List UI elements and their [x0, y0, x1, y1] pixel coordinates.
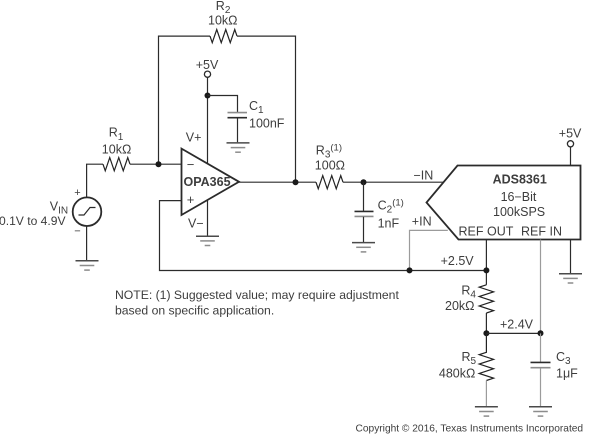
wire VIN bottom to ground: [86, 226, 88, 260]
wire +2.4V horizontal: [486, 332, 540, 334]
label 16-Bit: [501, 190, 537, 204]
label 100kSPS: [493, 205, 545, 219]
svg-text:+: +: [74, 187, 80, 199]
svg-text:0.1V to 4.9V: 0.1V to 4.9V: [0, 214, 66, 228]
label ADS8361: [493, 173, 547, 187]
wire C1 to ground: [237, 118, 239, 142]
svg-text:10kΩ: 10kΩ: [208, 14, 238, 28]
label V−: [188, 216, 204, 230]
node A junction: [156, 161, 162, 167]
wire feedback top from node A to R2: [159, 36, 211, 164]
value label R3(1) 100Ω: [315, 143, 345, 173]
ADC U2 ADS8361 outline: [427, 166, 581, 240]
wire R3 to -IN: [343, 181, 443, 183]
wire non-inverting input to bottom rail: [160, 201, 487, 271]
svg-text:OPA365: OPA365: [184, 175, 231, 189]
ground op-amp: [196, 236, 219, 245]
node +IN junction: [407, 267, 413, 273]
svg-text:1nF: 1nF: [378, 217, 400, 231]
node +2.4V left junction: [483, 330, 489, 336]
svg-text:−IN: −IN: [414, 169, 434, 183]
resistor R3: [316, 176, 343, 189]
wire node to C2: [363, 182, 365, 211]
wire +5V to V+: [207, 77, 209, 163]
label V+: [186, 130, 202, 144]
wire +2.4V to C3 gray: [540, 333, 542, 362]
ground C2: [352, 243, 375, 252]
power +5V terminal circle ADC: [567, 141, 573, 147]
capacitor C3: [531, 362, 551, 367]
ground R5: [475, 407, 498, 416]
label plus of source: [74, 187, 80, 199]
svg-text:V+: V+: [186, 130, 202, 144]
svg-text:+: +: [187, 192, 195, 207]
svg-text:+IN: +IN: [412, 215, 432, 229]
svg-text:ADS8361: ADS8361: [493, 173, 547, 187]
svg-text:NOTE: (1) Suggested value; may: NOTE: (1) Suggested value; may require a…: [115, 288, 399, 302]
label VIN: [0, 199, 68, 228]
value label C1 100nF: [249, 99, 285, 130]
wire C2 to ground: [363, 217, 365, 242]
node +2.4V right junction: [538, 330, 544, 336]
svg-text:20kΩ: 20kΩ: [445, 299, 475, 313]
svg-text:+5V: +5V: [196, 58, 219, 72]
wire to C1: [208, 96, 238, 113]
power +5V label (ADC supply): [559, 126, 582, 140]
value label C3 1uF: [556, 350, 578, 381]
capacitor C1: [228, 113, 248, 118]
wire op-amp output to R3: [239, 181, 316, 183]
label minus of source: [74, 225, 80, 237]
ground ADC: [559, 274, 582, 283]
pin plus label: [187, 192, 195, 207]
node C2 junction: [361, 179, 367, 185]
wire +IN gray: [410, 230, 448, 270]
svg-text:based on specific application.: based on specific application.: [115, 304, 274, 318]
svg-text:1μF: 1μF: [556, 367, 578, 381]
wire VIN top to R1: [87, 164, 103, 197]
svg-text:+2.4V: +2.4V: [500, 317, 534, 331]
power +5V terminal circle: [204, 71, 210, 77]
value label R4 20kΩ: [445, 283, 476, 313]
svg-text:+5V: +5V: [559, 126, 582, 140]
op-amp U1 OPA365 triangle: [182, 149, 240, 215]
wire R1 to inverting node A: [130, 163, 182, 165]
svg-text:REF IN: REF IN: [521, 225, 562, 239]
wire REF IN pin down gray: [540, 240, 542, 334]
power +5V label (op-amp supply): [196, 58, 219, 72]
value label R2 10kΩ: [208, 0, 238, 28]
pin label REF OUT: [459, 225, 514, 239]
pin minus label: [187, 157, 195, 172]
svg-text:REF OUT: REF OUT: [459, 225, 514, 239]
wire feedback top right down to output node: [237, 36, 296, 182]
resistor R5: [479, 333, 493, 380]
source VIN circle: [73, 197, 102, 226]
wire ADC gnd pin: [570, 240, 572, 274]
copyright text: [356, 423, 584, 434]
node output junction: [293, 179, 299, 185]
svg-text:V−: V−: [188, 216, 204, 230]
svg-text:100kSPS: 100kSPS: [493, 205, 545, 219]
svg-text:16−Bit: 16−Bit: [501, 190, 537, 204]
note text: [115, 288, 399, 317]
capacitor C2: [355, 211, 374, 216]
svg-text:−: −: [187, 157, 195, 172]
pin label -IN: [414, 169, 434, 183]
ground VIN: [76, 261, 99, 270]
resistor R2: [210, 29, 237, 42]
node +2.5V junction: [483, 267, 489, 273]
wire REF OUT pin down: [485, 240, 487, 285]
wire R4 to +2.4V node: [485, 313, 487, 333]
svg-text:480kΩ: 480kΩ: [439, 367, 475, 381]
svg-text:100Ω: 100Ω: [315, 159, 345, 173]
label OPA365: [184, 175, 231, 189]
wire +5V to ADC: [570, 147, 572, 166]
label +2.5V: [441, 254, 475, 268]
wire R5 to ground gray: [485, 381, 487, 407]
ground C1: [227, 143, 250, 152]
value label C2(1) 1nF: [378, 198, 404, 231]
svg-text:10kΩ: 10kΩ: [102, 143, 132, 157]
svg-text:−: −: [74, 225, 80, 237]
svg-text:100nF: 100nF: [249, 116, 285, 130]
label +2.4V: [500, 317, 534, 331]
pin label REF IN: [521, 225, 562, 239]
node supply junction: [205, 93, 211, 99]
wire V- to ground: [207, 200, 209, 235]
pin label +IN: [412, 215, 432, 229]
resistor R1: [103, 158, 130, 171]
svg-text:+2.5V: +2.5V: [441, 254, 475, 268]
ground C3: [529, 407, 552, 416]
value label R1 10kΩ: [102, 126, 132, 157]
resistor R4: [479, 285, 493, 313]
svg-text:Copyright © 2016, Texas Instru: Copyright © 2016, Texas Instruments Inco…: [356, 423, 584, 434]
value label R5 480kΩ: [439, 350, 477, 381]
source VIN ramp symbol: [79, 208, 96, 216]
wire C3 to ground gray: [540, 368, 542, 406]
